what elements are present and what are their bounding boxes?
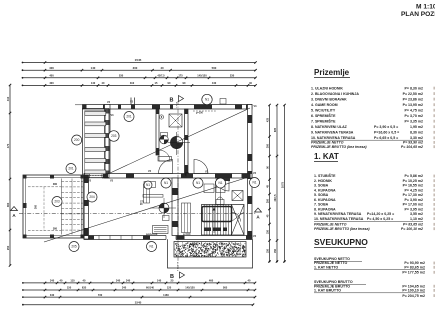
- section line A-A horizontal dash-dot: [19, 213, 256, 215]
- svg-text:340: 340: [126, 279, 131, 283]
- svg-text:P= 3,90 x 0,5 =: P= 3,90 x 0,5 =: [374, 125, 398, 129]
- svg-text:N1: N1: [218, 181, 222, 185]
- section marker A right: [255, 208, 262, 220]
- svg-text:N1: N1: [149, 245, 153, 249]
- svg-text:2. HODNIK: 2. HODNIK: [314, 179, 332, 183]
- tiny dim text 175: [140, 202, 145, 207]
- svg-text:204: 204: [89, 195, 95, 199]
- svg-text:N1: N1: [205, 98, 209, 102]
- svg-text:40: 40: [160, 66, 164, 70]
- svg-text:7. SOBA: 7. SOBA: [314, 203, 329, 207]
- svg-text:340: 340: [50, 279, 55, 283]
- nail label N1 e: [144, 181, 152, 189]
- legend heading 1. KAT: [314, 152, 339, 162]
- svg-text:P= 3,90 m2: P= 3,90 m2: [405, 198, 423, 202]
- svg-text:360: 360: [6, 202, 10, 207]
- svg-text:1075: 1075: [281, 181, 285, 188]
- svg-text:145/120: 145/120: [197, 74, 207, 78]
- staircase: [202, 205, 245, 236]
- svg-text:360: 360: [35, 204, 38, 209]
- svg-text:8,30 m2: 8,30 m2: [410, 130, 423, 134]
- svg-text:310: 310: [130, 81, 135, 85]
- svg-text:9. NENATKRIVENA TERASA: 9. NENATKRIVENA TERASA: [314, 212, 362, 216]
- small rects below column: [163, 216, 170, 221]
- svg-text:P= 204,75 m2: P= 204,75 m2: [402, 294, 425, 298]
- interior wall vertical lower (x172): [172, 178, 178, 236]
- exterior wall top: [75, 105, 252, 110]
- svg-text:400: 400: [49, 81, 54, 85]
- right dim line end dots: [269, 261, 286, 263]
- section marker B bottom: [170, 262, 185, 280]
- door arc 2: [194, 160, 208, 174]
- svg-text:150: 150: [67, 286, 72, 290]
- svg-text:pod+0,00: pod+0,00: [146, 232, 158, 236]
- svg-text:400: 400: [49, 74, 54, 78]
- legend first floor list: [314, 173, 423, 231]
- svg-text:4. KUPAONA: 4. KUPAONA: [314, 188, 336, 192]
- svg-text:250: 250: [6, 245, 10, 250]
- svg-text:6. KUPAONA: 6. KUPAONA: [314, 198, 336, 202]
- bathroom wc: [161, 133, 168, 137]
- bathroom counter: [158, 157, 172, 162]
- window label 203b: [109, 131, 120, 142]
- kitchen appliance stripes: [153, 226, 169, 234]
- column marker circle dark 2: [168, 132, 190, 155]
- svg-text:PRIZEMLJE BRUTTO (bez terasa): PRIZEMLJE BRUTTO (bez terasa): [311, 145, 367, 149]
- dark beam above stairs: [217, 178, 230, 181]
- svg-text:45/7,5: 45/7,5: [157, 74, 165, 78]
- svg-text:380: 380: [53, 183, 58, 186]
- section marker B top: [170, 96, 184, 109]
- svg-text:1,95 m2: 1,95 m2: [410, 125, 423, 129]
- svg-text:1. STUBIŠTE: 1. STUBIŠTE: [314, 173, 336, 178]
- interior wall vertical (room divider x185): [185, 109, 189, 174]
- window label 201: [124, 112, 134, 122]
- interior wall vertical (room divider x156): [156, 109, 159, 155]
- svg-text:SVEUKUPNO: SVEUKUPNO: [314, 237, 368, 247]
- bathroom ceiling light: [159, 115, 163, 119]
- svg-text:340: 340: [122, 286, 127, 290]
- svg-text:3. SOBA: 3. SOBA: [314, 184, 329, 188]
- svg-text:P= 5,86 m2: P= 5,86 m2: [405, 174, 423, 178]
- svg-text:N1: N1: [164, 181, 168, 185]
- svg-text:1545: 1545: [135, 300, 142, 304]
- svg-text:120: 120: [167, 286, 172, 290]
- svg-text:1. KAT: 1. KAT: [314, 152, 339, 161]
- dimension line right inner: [267, 104, 271, 263]
- svg-text:6. SPREMIŠTE: 6. SPREMIŠTE: [311, 113, 336, 118]
- door arc small upper divider: [159, 150, 170, 161]
- svg-text:340: 340: [116, 279, 121, 283]
- dimension chain bottom row 4 (overall 1545): [22, 300, 254, 306]
- svg-text:P=16,60 x 0,5 =: P=16,60 x 0,5 =: [374, 130, 399, 134]
- exterior wall right: [248, 105, 253, 240]
- svg-text:201: 201: [126, 115, 132, 119]
- svg-text:175: 175: [178, 74, 183, 78]
- covered entrance deck with plank hatch: [83, 109, 110, 178]
- hall cupboard right of wall: [182, 203, 191, 233]
- svg-text:3,30 m2: 3,30 m2: [410, 136, 423, 140]
- svg-text:P= 13,95 m2: P= 13,95 m2: [403, 103, 423, 107]
- svg-text:P= 100,10 m2: P= 100,10 m2: [402, 289, 425, 293]
- svg-text:P= 8,30 m2: P= 8,30 m2: [405, 86, 423, 90]
- glass wall dividers bottom: [99, 236, 132, 240]
- svg-text:565: 565: [223, 286, 228, 290]
- kitchen counter top: [143, 195, 163, 198]
- svg-text:560: 560: [212, 66, 217, 70]
- svg-text:9. NATKRIVENA TERASA: 9. NATKRIVENA TERASA: [311, 130, 354, 134]
- svg-text:40/7,5: 40/7,5: [274, 194, 277, 202]
- svg-text:P= 3,95 m2: P= 3,95 m2: [405, 207, 423, 211]
- svg-text:150: 150: [267, 229, 270, 234]
- svg-text:PLAN POZICIJE: PLAN POZICIJE: [401, 11, 435, 18]
- svg-text:N1: N1: [252, 181, 256, 185]
- svg-text:Prizemlje: Prizemlje: [314, 68, 350, 77]
- svg-text:P= 177,55 m2: P= 177,55 m2: [402, 271, 425, 275]
- svg-text:1. KAT BRUTTO: 1. KAT BRUTTO: [314, 289, 341, 293]
- window label 201b: [66, 164, 76, 174]
- svg-text:440: 440: [212, 81, 217, 85]
- svg-text:8. KUPAONA: 8. KUPAONA: [314, 207, 336, 211]
- svg-text:1. ULAZNI HODNIK: 1. ULAZNI HODNIK: [311, 86, 343, 90]
- svg-text:P= 3,70 m2: P= 3,70 m2: [405, 114, 423, 118]
- window label 202: [52, 197, 62, 207]
- svg-text:p=100: p=100: [196, 112, 204, 115]
- svg-text:1. KAT NETTO: 1. KAT NETTO: [314, 266, 338, 270]
- svg-text:8. NATKRIVENI ULAZ: 8. NATKRIVENI ULAZ: [311, 125, 348, 129]
- svg-text:P= 3,35 m2: P= 3,35 m2: [405, 119, 423, 123]
- svg-text:1160: 1160: [163, 293, 169, 297]
- svg-text:P= 6,65 x 0,5 =: P= 6,65 x 0,5 =: [374, 136, 398, 140]
- svg-text:P= 10,25 m2: P= 10,25 m2: [403, 179, 423, 183]
- V3 labels: [88, 101, 257, 239]
- column marker circle dark 1: [160, 135, 169, 144]
- flue partition lines: [216, 181, 221, 205]
- nail label N1 a: [161, 178, 171, 188]
- svg-text:P= 17,00 m2: P= 17,00 m2: [403, 203, 423, 207]
- svg-text:340: 340: [50, 293, 55, 297]
- nail label N1 b: [193, 178, 203, 188]
- svg-text:N1: N1: [146, 183, 150, 187]
- svg-text:P= 83,65 m2: P= 83,65 m2: [403, 223, 423, 227]
- legend ground floor list: [311, 86, 423, 149]
- svg-text:P= 23,86 m2: P= 23,86 m2: [403, 97, 423, 101]
- svg-text:P= 83,65 m2: P= 83,65 m2: [404, 266, 425, 270]
- svg-text:P= 4,25 m2: P= 4,25 m2: [405, 188, 423, 192]
- section marker A left: [11, 207, 18, 219]
- svg-text:530: 530: [119, 74, 124, 78]
- nail label N1 d: [250, 178, 260, 188]
- svg-text:460: 460: [209, 279, 214, 283]
- section line B-B vertical dash-dot: [177, 101, 179, 271]
- diagonal marker upper rooms: [108, 108, 250, 174]
- svg-text:410: 410: [6, 96, 10, 101]
- svg-text:B: B: [170, 274, 174, 280]
- nail label N1 top: [202, 94, 212, 104]
- dimension chain bottom row 3: [22, 293, 256, 299]
- svg-text:60/140: 60/140: [146, 286, 154, 290]
- svg-text:P= 16,55 m2: P= 16,55 m2: [403, 184, 423, 188]
- nail label N1 f: [147, 242, 157, 252]
- svg-text:10. NENATKRIVENA TERASA: 10. NENATKRIVENA TERASA: [314, 217, 364, 221]
- legend heading SVEUKUPNO: [314, 237, 368, 248]
- diagonal marker lower rooms: [44, 178, 247, 243]
- svg-text:P= 17,30 m2: P= 17,30 m2: [403, 193, 423, 197]
- svg-text:470: 470: [6, 143, 10, 148]
- dimension chain left side: [6, 84, 11, 267]
- svg-text:203: 203: [54, 200, 60, 204]
- svg-text:p=100: p=100: [183, 232, 191, 236]
- dimension chain bottom row 1: [22, 279, 256, 285]
- interior load wall mid horizontal: [84, 173, 252, 178]
- nail label N1 c: [216, 178, 226, 188]
- svg-text:730: 730: [98, 293, 103, 297]
- door arc 1: [159, 160, 173, 174]
- svg-text:3. DNEVNI BORAVAK: 3. DNEVNI BORAVAK: [311, 97, 347, 101]
- window jamb ticks above top wall: [131, 98, 226, 105]
- svg-text:200: 200: [74, 138, 80, 142]
- svg-text:230: 230: [230, 74, 235, 78]
- window label 200: [72, 135, 82, 145]
- svg-text:5. WC/UTILITY: 5. WC/UTILITY: [311, 108, 336, 112]
- door mullion dark mid wall: [187, 174, 194, 179]
- legend totals: [314, 257, 425, 298]
- svg-text:380: 380: [53, 227, 58, 230]
- covered terrace left with plank pattern: [23, 175, 84, 238]
- exterior wall left of upper block: [105, 105, 111, 179]
- svg-text:N1: N1: [196, 181, 200, 185]
- svg-text:140: 140: [91, 66, 96, 70]
- svg-text:605: 605: [274, 127, 277, 132]
- dimension chain top row 1 (overall 1545): [22, 58, 257, 64]
- svg-text:1,10 m2: 1,10 m2: [410, 217, 423, 221]
- window label 204: [87, 192, 97, 202]
- svg-text:110: 110: [70, 279, 75, 283]
- svg-text:2. BLAGOVAONA I KUHINJA: 2. BLAGOVAONA I KUHINJA: [311, 92, 359, 96]
- door arc 3 lower: [216, 178, 229, 191]
- small fixture above stairs: [216, 197, 224, 205]
- svg-text:140: 140: [91, 81, 96, 85]
- svg-text:4. GAME ROOM: 4. GAME ROOM: [311, 103, 338, 107]
- exterior wall bottom: [84, 235, 252, 240]
- svg-text:1545: 1545: [135, 58, 142, 62]
- lower right furniture: [204, 184, 225, 193]
- svg-text:5. SOBA: 5. SOBA: [314, 193, 329, 197]
- title: scale M 1:100 (cut off): [401, 4, 435, 19]
- svg-text:P= 4,50 x 0,25 =: P= 4,50 x 0,25 =: [367, 217, 393, 221]
- dimension chain bottom row 2: [22, 286, 256, 292]
- dimension chain top row 4: [22, 81, 257, 87]
- svg-text:P= 22,50 m2: P= 22,50 m2: [403, 92, 423, 96]
- svg-text:M 1:100: M 1:100: [416, 4, 435, 11]
- cut-off column at right edge: [433, 87, 435, 297]
- svg-text:150: 150: [274, 248, 277, 253]
- legend heading Prizemlje: [314, 68, 350, 78]
- dimension chain top row 2: [22, 66, 257, 72]
- kitchen tall cupboard: [144, 184, 150, 203]
- svg-text:200: 200: [267, 198, 270, 203]
- column marker circle dark 3 (kitchen): [150, 198, 176, 218]
- sill note p=100: [146, 111, 216, 236]
- svg-text:140: 140: [157, 279, 162, 283]
- kitchen small fixtures: [144, 182, 156, 188]
- svg-text:3,55 m2: 3,55 m2: [410, 212, 423, 216]
- svg-text:P= 100,10 m2: P= 100,10 m2: [401, 227, 423, 231]
- svg-text:P=14,20 x 0,25 =: P=14,20 x 0,25 =: [367, 212, 394, 216]
- svg-text:400: 400: [49, 66, 54, 70]
- window label 205: [69, 242, 79, 252]
- dimension line right middle: [274, 104, 278, 263]
- svg-text:203: 203: [111, 134, 117, 138]
- dimension chain top row 3: [22, 74, 257, 80]
- storage under stairs with X: [232, 191, 243, 201]
- svg-text:10. NATKRIVENA TERASA: 10. NATKRIVENA TERASA: [311, 136, 356, 140]
- svg-text:300: 300: [133, 66, 138, 70]
- dimension line right outer (overall): [281, 104, 286, 263]
- terrace outline outer: [168, 239, 253, 268]
- svg-text:7. SPREMIŠTE: 7. SPREMIŠTE: [311, 118, 336, 123]
- svg-text:150: 150: [267, 248, 270, 253]
- svg-text:P= 4,75 m2: P= 4,75 m2: [405, 108, 423, 112]
- hinge dot between doors: [185, 172, 189, 176]
- svg-text:201: 201: [68, 167, 74, 171]
- svg-text:B: B: [170, 98, 174, 104]
- uncovered terrace bottom stippled: [174, 242, 246, 258]
- svg-text:145/120: 145/120: [185, 286, 195, 290]
- svg-text:205: 205: [71, 245, 77, 249]
- bathroom shower square: [169, 114, 182, 127]
- svg-text:PRIZEMLJE BRUTTO (bez terasa): PRIZEMLJE BRUTTO (bez terasa): [314, 227, 370, 231]
- svg-text:635: 635: [82, 286, 87, 290]
- svg-text:P= 104,65 m2: P= 104,65 m2: [401, 145, 423, 149]
- svg-text:PRIZEMLJE NETTO: PRIZEMLJE NETTO: [314, 223, 347, 227]
- svg-text:425: 425: [267, 117, 270, 122]
- svg-text:300: 300: [267, 143, 270, 148]
- wall between left terrace and interior: [84, 175, 89, 239]
